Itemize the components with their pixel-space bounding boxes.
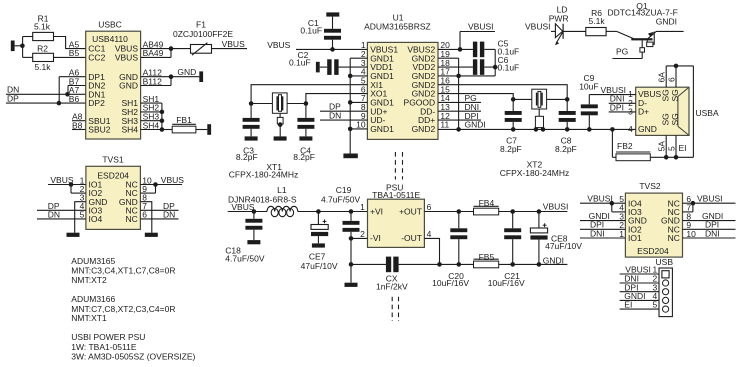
net DPI <box>620 282 659 292</box>
wire TVS1 GND <box>75 202 86 233</box>
junction GND2 pin17 <box>456 74 461 79</box>
svg-text:DJNR4018-6R8-S: DJNR4018-6R8-S <box>228 194 297 204</box>
wire GNDI rail psu <box>440 263 568 265</box>
junction XT1 right <box>304 101 309 106</box>
svg-text:IO1: IO1 <box>628 233 642 243</box>
psu module PSU TBA1-0511E <box>360 182 432 247</box>
net GNDI <box>543 256 564 266</box>
svg-text:FB5: FB5 <box>479 252 495 262</box>
svg-text:-VI: -VI <box>370 233 381 243</box>
net VBUSI <box>589 85 635 95</box>
svg-text:FB1: FB1 <box>176 115 192 125</box>
wire shield right <box>650 66 693 157</box>
capacitor CE8 <box>530 212 582 265</box>
svg-text:10uF/16V: 10uF/16V <box>432 278 469 288</box>
capacitor C19 <box>321 185 361 239</box>
svg-text:USBI POWER PSU: USBI POWER PSU <box>71 332 145 342</box>
wire C5 to GND bus <box>484 49 495 75</box>
net DNI <box>580 228 625 238</box>
svg-text:GND: GND <box>638 124 657 134</box>
junction VBUS TVS1 <box>69 182 86 193</box>
capacitor C21 <box>488 212 525 289</box>
junction XT2 right <box>565 97 570 102</box>
wire DP1 <box>59 76 85 78</box>
svg-text:47uF/10V: 47uF/10V <box>545 241 582 251</box>
net VBUSI right <box>683 194 736 204</box>
ground <box>207 124 211 135</box>
junction shield 5 <box>674 155 679 160</box>
junction XT1 left <box>249 101 254 106</box>
net VBUS <box>267 40 367 50</box>
svg-text:SH4: SH4 <box>121 125 138 135</box>
ground <box>312 243 325 247</box>
svg-text:PG: PG <box>616 47 628 57</box>
svg-text:6A: 6A <box>657 72 667 83</box>
svg-text:SG: SG <box>670 89 680 101</box>
junction CE8 top <box>537 209 542 214</box>
capacitor C1 <box>300 12 341 49</box>
svg-text:GND: GND <box>177 67 196 77</box>
fuse F1 0ZCJ0100FF2E <box>173 20 233 56</box>
connector USB <box>656 257 674 317</box>
ferrite bead FB4 <box>474 198 499 215</box>
svg-text:VBUS: VBUS <box>222 39 245 49</box>
junction CX left <box>349 262 354 267</box>
ground <box>11 41 23 52</box>
wire XT2 left <box>438 94 513 100</box>
svg-text:B6: B6 <box>69 94 80 104</box>
svg-text:5.1k: 5.1k <box>34 22 51 32</box>
wire DN1 <box>68 93 86 95</box>
wire shield top <box>666 66 693 87</box>
junction SH2 <box>160 110 165 115</box>
net VBUSI <box>525 21 555 31</box>
junction C18 <box>252 209 257 214</box>
net VBUSI <box>580 194 625 204</box>
junction GND1 pin4 <box>348 74 353 79</box>
crystal XT2 <box>500 89 569 178</box>
svg-text:CFPX-180-24MHz: CFPX-180-24MHz <box>229 170 298 180</box>
junction C20 top <box>457 209 462 214</box>
svg-text:0.1uF: 0.1uF <box>498 63 520 73</box>
wire XO1 <box>306 94 368 104</box>
svg-text:DNI: DNI <box>705 228 720 238</box>
junction C1 <box>330 47 335 52</box>
wire DN2 <box>68 85 86 87</box>
net EI <box>679 143 687 153</box>
svg-text:CC2: CC2 <box>88 53 105 63</box>
svg-text:EI: EI <box>679 143 687 153</box>
net GNDI <box>656 16 684 31</box>
svg-text:TBA1-0511E: TBA1-0511E <box>372 190 420 200</box>
wire GND1 bus <box>350 58 367 153</box>
svg-text:3W: AM3D-0505SZ (OVERSIZE): 3W: AM3D-0505SZ (OVERSIZE) <box>71 352 195 362</box>
capacitor C8 <box>555 99 577 154</box>
junction GND2 pin11 <box>456 127 461 132</box>
resistor R6 <box>586 8 606 36</box>
svg-text:0.1uF: 0.1uF <box>300 25 322 35</box>
svg-text:DP: DP <box>7 94 19 104</box>
svg-text:5.1k: 5.1k <box>34 62 51 72</box>
svg-text:B112: B112 <box>143 76 162 86</box>
ground <box>199 71 203 82</box>
wire L1 to PSU <box>298 211 368 213</box>
net VBUS <box>212 39 248 49</box>
svg-text:2: 2 <box>360 229 365 239</box>
svg-text:D+: D+ <box>638 106 649 116</box>
svg-text:10uF: 10uF <box>579 82 598 92</box>
junction SH4 <box>160 127 165 132</box>
net EI <box>620 300 659 310</box>
wire XT2 right <box>438 85 567 100</box>
svg-text:5.1k: 5.1k <box>589 16 606 26</box>
ground <box>247 240 260 244</box>
junction C6 <box>493 65 498 70</box>
wire shield pins <box>141 103 162 129</box>
svg-text:VBUSI: VBUSI <box>543 202 569 212</box>
wire TVS1 GND right <box>140 202 151 233</box>
svg-text:VBUSI: VBUSI <box>525 21 551 31</box>
net DNI <box>620 274 659 284</box>
node CC pulldown junction <box>20 37 33 58</box>
svg-text:EI: EI <box>624 300 632 310</box>
net VBUS <box>228 202 267 212</box>
wire -OUT <box>424 238 439 264</box>
net DNI <box>438 102 481 112</box>
junction C8 <box>565 127 570 132</box>
svg-text:ADUM3165: ADUM3165 <box>71 256 115 266</box>
svg-text:11: 11 <box>440 120 449 130</box>
capacitor C3 <box>236 104 260 162</box>
junction GND1 pin10 <box>348 127 353 132</box>
net DP <box>140 201 178 211</box>
net GNDI <box>580 211 625 221</box>
wire VBUS pins to F1 <box>141 49 191 58</box>
svg-text:10: 10 <box>356 120 366 130</box>
svg-text:6: 6 <box>427 202 432 212</box>
junction C21 top <box>510 209 515 214</box>
svg-text:FB2: FB2 <box>617 141 633 151</box>
junction XT2 left <box>511 97 516 102</box>
svg-text:PWR: PWR <box>549 14 569 24</box>
svg-text:NMT:XT1: NMT:XT1 <box>71 313 107 323</box>
svg-text:VBUS: VBUS <box>267 40 290 50</box>
ground <box>343 154 357 159</box>
wire DP2 <box>59 102 86 104</box>
net DN <box>37 210 86 220</box>
svg-text:NC: NC <box>668 233 680 243</box>
net DNI right <box>683 228 736 238</box>
svg-text:GNDI: GNDI <box>656 16 677 26</box>
svg-text:5A: 5A <box>657 141 667 152</box>
capacitor C6 <box>473 55 519 75</box>
wire SBU2 stub <box>72 129 86 131</box>
capacitor CE7 <box>301 212 338 272</box>
svg-text:NC: NC <box>126 214 138 224</box>
wire GNDI to USBA <box>612 128 635 130</box>
junction DN <box>65 86 70 97</box>
svg-text:TVS1: TVS1 <box>102 155 124 165</box>
svg-text:DN: DN <box>48 210 60 220</box>
svg-text:1: 1 <box>360 202 365 212</box>
led LD PWR <box>549 4 569 45</box>
ferrite bead FB2 <box>616 141 650 161</box>
svg-text:-OUT: -OUT <box>401 233 422 243</box>
ground <box>345 283 358 287</box>
svg-text:VBUSI: VBUSI <box>468 22 494 32</box>
svg-text:+VI: +VI <box>370 206 383 216</box>
svg-text:8.2pF: 8.2pF <box>293 152 315 162</box>
svg-text:6: 6 <box>667 77 677 82</box>
svg-text:GND1: GND1 <box>370 124 394 134</box>
svg-text:10: 10 <box>686 229 696 239</box>
crystal XT1 <box>229 93 306 180</box>
wire C2 to VDD1 <box>339 66 368 68</box>
wire FB1 to ground <box>196 129 207 131</box>
net VBUSI <box>460 22 495 50</box>
junction DP <box>57 77 62 106</box>
isolation barrier lower <box>392 297 398 321</box>
svg-text:GNDI: GNDI <box>465 120 486 130</box>
capacitor C18 <box>225 212 265 264</box>
transistor Q1 DDTC143ZUA-7-F <box>608 1 678 59</box>
capacitor C5 <box>473 39 519 58</box>
capacitor C2 <box>289 50 339 75</box>
wire R6 to Q1 <box>606 30 617 32</box>
svg-text:+OUT: +OUT <box>399 206 422 216</box>
svg-text:4: 4 <box>427 229 432 239</box>
svg-text:ADUM3166: ADUM3166 <box>71 294 115 304</box>
wire -VI <box>351 238 368 282</box>
svg-text:SG: SG <box>661 113 671 125</box>
note mounting options <box>71 256 195 362</box>
net DN <box>140 210 178 220</box>
capacitor C4 <box>293 104 315 162</box>
svg-text:0.1uF: 0.1uF <box>289 57 311 67</box>
TVS diode array TVS2 ESD204 <box>619 181 696 257</box>
junction C7 <box>511 127 516 132</box>
net GND <box>177 67 196 77</box>
svg-text:VBUS: VBUS <box>161 175 184 185</box>
resistor R2 <box>33 44 54 73</box>
net DN <box>320 110 367 120</box>
svg-text:4.7uF/50V: 4.7uF/50V <box>321 194 361 204</box>
junction GND A112 <box>169 74 174 79</box>
svg-text:USB4110: USB4110 <box>92 34 128 44</box>
ferrite bead FB5 <box>474 252 499 268</box>
net DNI <box>609 94 636 104</box>
net VBUS <box>140 175 184 185</box>
junction SH3 <box>160 118 165 123</box>
svg-text:GND: GND <box>119 81 138 91</box>
wire +OUT rail <box>424 211 567 213</box>
svg-text:0ZCJ0100FF2E: 0ZCJ0100FF2E <box>173 29 233 39</box>
TVS diode array TVS1 ESD204 <box>80 155 152 230</box>
junction VBUSI TVS2 <box>610 201 626 212</box>
junction VBUS2 <box>458 47 463 52</box>
ground <box>67 233 80 237</box>
net VBUSI <box>620 265 659 275</box>
svg-text:DNI: DNI <box>590 228 605 238</box>
net DP <box>6 94 59 104</box>
svg-text:8.2pF: 8.2pF <box>555 144 577 154</box>
junction shield 5A <box>664 155 669 160</box>
net GNDI <box>620 291 659 301</box>
net DPI <box>609 102 636 112</box>
svg-text:5: 5 <box>652 300 657 310</box>
junction C19 bottom <box>349 236 354 241</box>
net PG <box>438 93 481 103</box>
svg-text:R2: R2 <box>37 44 48 54</box>
svg-text:DN: DN <box>329 110 341 120</box>
svg-text:6: 6 <box>142 210 147 220</box>
net DPI <box>438 111 481 121</box>
capacitor C7 <box>500 99 522 154</box>
net DPI <box>580 220 625 230</box>
net VBUS <box>48 175 86 185</box>
ground <box>245 136 258 140</box>
junction VBUS TVS1 right <box>140 182 157 193</box>
junction VBUS AB49 <box>169 46 174 51</box>
svg-text:8.2pF: 8.2pF <box>500 144 522 154</box>
wire GND2 rail <box>438 128 612 130</box>
svg-text:USBC: USBC <box>98 20 122 30</box>
svg-text:GNDI: GNDI <box>543 256 564 266</box>
svg-text:GND2: GND2 <box>412 124 436 134</box>
capacitor C20 <box>432 212 469 289</box>
capacitor C9 <box>579 73 598 130</box>
resistor R1 <box>33 13 54 40</box>
junction GNDI FB2 <box>610 127 616 157</box>
svg-text:TVS2: TVS2 <box>639 181 661 191</box>
svg-text:5: 5 <box>667 146 677 151</box>
svg-text:FB4: FB4 <box>479 198 495 208</box>
svg-text:USB: USB <box>656 257 674 267</box>
svg-text:VBUSI: VBUSI <box>697 194 723 204</box>
junction CX right <box>437 262 442 267</box>
svg-text:SG: SG <box>670 113 680 125</box>
ground <box>274 136 287 140</box>
net PG <box>612 47 642 59</box>
junction shield top <box>674 64 679 69</box>
wire SH4 to FB1 <box>162 129 172 131</box>
junction GND1 pin7 <box>348 100 353 105</box>
junction C21 bottom <box>510 262 515 267</box>
svg-text:USBA: USBA <box>696 108 719 118</box>
junction VBUSI TVS2 right <box>683 201 696 212</box>
connector USBC USB4110 <box>69 20 164 139</box>
net VBUSI <box>543 202 569 212</box>
svg-text:DN: DN <box>163 210 175 220</box>
wire LED to R6 <box>563 30 586 32</box>
svg-text:B8: B8 <box>72 120 83 130</box>
svg-text:1: 1 <box>619 229 624 239</box>
capacitor CX <box>351 257 440 292</box>
svg-text:5: 5 <box>80 210 85 220</box>
junction C20 bottom <box>457 262 462 267</box>
ferrite bead FB1 <box>172 115 196 133</box>
crystal XT2 case pins <box>535 109 543 129</box>
svg-text:1nF/2kV: 1nF/2kV <box>376 281 408 291</box>
ground <box>145 233 158 237</box>
crystal XT1 case pins <box>277 113 283 136</box>
ground <box>299 136 312 140</box>
wire VBUS2 <box>438 48 473 50</box>
svg-text:DPI: DPI <box>610 102 624 112</box>
svg-text:4.7uF/50V: 4.7uF/50V <box>225 253 265 263</box>
svg-text:47uF/10V: 47uF/10V <box>301 261 338 271</box>
net GNDI right <box>683 211 736 221</box>
junction CE7 <box>316 209 321 214</box>
svg-text:ESD204: ESD204 <box>637 246 669 256</box>
wire R2 to CC2 <box>54 56 86 58</box>
wire VDD2 <box>438 66 495 68</box>
svg-text:VBUSI: VBUSI <box>587 194 613 204</box>
net DP <box>37 201 86 211</box>
svg-text:VBUS: VBUS <box>115 53 138 63</box>
svg-text:10uF/16V: 10uF/16V <box>488 278 525 288</box>
connector USBA <box>628 72 719 152</box>
svg-text:CFPX-180-24MHz: CFPX-180-24MHz <box>500 168 569 178</box>
svg-text:1W: TBA1-0511E: 1W: TBA1-0511E <box>71 342 137 352</box>
svg-text:NMT:XT2: NMT:XT2 <box>71 275 107 285</box>
junction CE8 bottom <box>537 262 542 267</box>
wire shield bottom pins <box>666 135 676 157</box>
junction C9 <box>587 127 592 132</box>
wire R1 to CC1 <box>54 37 86 49</box>
isolation barrier upper <box>395 152 402 180</box>
svg-text:SH4: SH4 <box>143 120 160 130</box>
net DP <box>320 102 367 112</box>
wire GND2 19-17 <box>438 58 495 129</box>
net GNDI <box>465 120 486 130</box>
net DPI right <box>683 220 736 230</box>
svg-text:SG: SG <box>661 89 671 101</box>
wire GND pins <box>141 77 200 86</box>
junction XT2 case b <box>541 127 546 132</box>
junction C19 top <box>349 209 354 214</box>
svg-text:8.2pF: 8.2pF <box>236 152 258 162</box>
junction XT2 case a <box>534 127 539 132</box>
svg-text:SBU2: SBU2 <box>88 125 110 135</box>
svg-text:BA49: BA49 <box>143 48 164 58</box>
svg-text:ADUM3165BRSZ: ADUM3165BRSZ <box>364 22 431 32</box>
inductor L1 <box>228 185 298 217</box>
svg-text:IO4: IO4 <box>89 214 103 224</box>
svg-text:DP2: DP2 <box>88 98 105 108</box>
wire SBU1 stub <box>72 120 86 122</box>
net DN <box>6 85 68 95</box>
op-amp U1 ADUM3165BRSZ isolator <box>356 12 450 139</box>
wire XI1 <box>251 85 367 104</box>
svg-text:B5: B5 <box>69 48 80 58</box>
